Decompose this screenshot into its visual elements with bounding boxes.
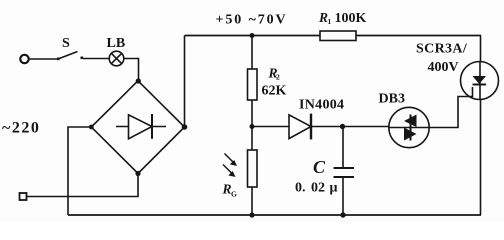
svg-text:S: S <box>62 36 70 51</box>
svg-text:100K: 100K <box>335 11 367 26</box>
svg-text:IN4004: IN4004 <box>299 98 344 113</box>
svg-text:400V: 400V <box>428 60 459 75</box>
bridge rectifier BR <box>91 81 184 174</box>
resistor R1 100K <box>318 10 367 41</box>
terminal T2 (lower AC input) <box>20 193 27 200</box>
terminal T1 (upper AC input) <box>20 55 28 63</box>
wire node B to diac (through diode) <box>252 126 389 128</box>
node bridge right <box>182 124 188 130</box>
svg-text:μ: μ <box>330 181 338 196</box>
wire lamp to bridge top <box>124 59 139 81</box>
svg-text:SCR3A/: SCR3A/ <box>416 42 468 57</box>
svg-text:C: C <box>313 157 326 177</box>
node bottom rail at x=252 <box>249 212 254 217</box>
node A (top rail junction) <box>250 33 255 38</box>
diode D1 IN4004 <box>289 98 344 140</box>
node bridge left <box>89 125 94 130</box>
wire T2 to bridge bottom <box>27 174 139 197</box>
svg-text:02: 02 <box>311 181 325 196</box>
thyristor SCR (SCR3A/400V) <box>416 42 499 100</box>
svg-text:LB: LB <box>107 36 126 51</box>
wire SCR cathode to bottom rail <box>480 99 482 215</box>
wire T1 to switch <box>29 58 58 60</box>
node C (cap junction) <box>340 124 345 129</box>
wire switch to lamp <box>83 58 109 60</box>
node bridge bottom <box>135 171 140 176</box>
node B <box>250 124 255 129</box>
svg-text:DB3: DB3 <box>379 92 405 107</box>
svg-text:R: R <box>318 10 328 25</box>
diac DB3 <box>379 92 430 148</box>
wire right side down to SCR anode <box>480 36 482 62</box>
lamp LB <box>107 36 126 66</box>
svg-text:62K: 62K <box>262 84 287 99</box>
wire diac gate to SCR <box>429 87 472 128</box>
wire bridge left to bottom rail <box>68 127 91 215</box>
wire bridge right up to top rail <box>184 36 186 128</box>
wire top rail <box>185 35 482 37</box>
resistor R2 62K <box>248 66 287 101</box>
svg-text:0.: 0. <box>295 181 306 196</box>
wire mid vertical (node A down) <box>251 36 253 70</box>
svg-text:~220: ~220 <box>2 120 40 137</box>
switch S <box>57 36 83 60</box>
svg-text:R: R <box>222 182 232 197</box>
svg-text:G: G <box>231 190 237 199</box>
capacitor C 0.02u <box>295 127 354 216</box>
photoresistor RG <box>222 150 258 199</box>
wire RG to bottom rail <box>251 187 253 215</box>
wire R2 to node B <box>251 100 253 127</box>
node bottom rail at x=343 <box>340 212 345 217</box>
wire node B down to RG <box>251 127 253 151</box>
wire bottom rail <box>68 214 481 216</box>
svg-text:1: 1 <box>328 17 332 26</box>
svg-text:+50 ~70V: +50 ~70V <box>216 13 288 28</box>
node bridge top <box>136 78 141 83</box>
svg-text:2: 2 <box>276 73 280 82</box>
